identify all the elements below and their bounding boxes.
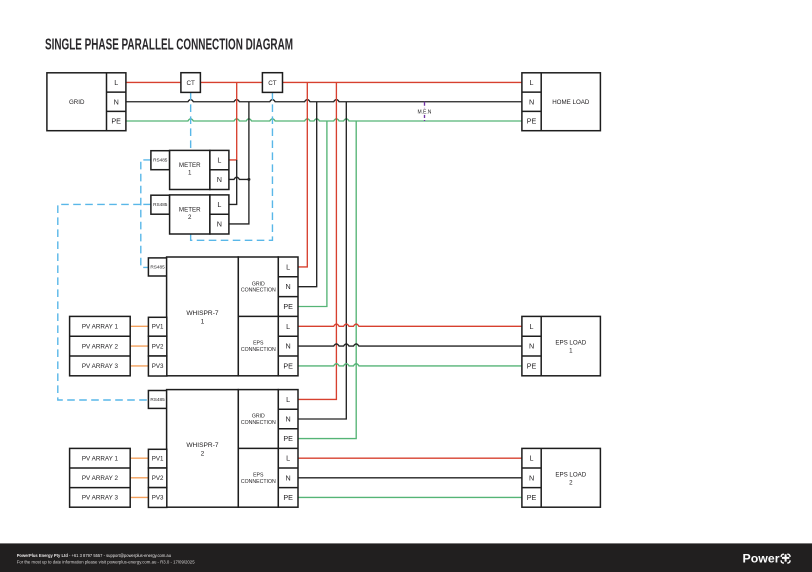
wire grid L rail [126,81,522,83]
wire meter1 N to N drop [229,177,249,179]
logo plus mark [780,553,791,564]
wire pv array 1 to whispr2 PV1 [130,457,148,459]
svg-text:Power: Power [743,552,781,565]
svg-text:N: N [114,97,119,106]
svg-text:N: N [217,219,222,228]
svg-text:PV3: PV3 [152,363,164,370]
svg-text:L: L [530,78,534,87]
wire pv array 2 to whispr2 PV2 [130,477,148,479]
svg-text:1: 1 [569,348,573,355]
inverter U2 PV terminals [148,449,166,507]
inverter U2 WHISPR-7 2 RS485 port [148,391,166,409]
svg-text:METER: METER [179,162,201,169]
load EPS LOAD 1 [522,316,601,375]
wire whispr1 grid L drop [298,82,307,266]
node M.E.N label [417,108,432,115]
svg-text:PV ARRAY 1: PV ARRAY 1 [82,324,119,331]
wire pv array 1 to whispr1 PV1 [130,325,148,327]
wire meter2 L link to meter1 L [229,160,237,205]
wire RS485 bus to whispr2 [58,204,149,400]
svg-text:L: L [286,395,290,404]
svg-text:1: 1 [188,169,192,176]
svg-text:L: L [217,155,221,164]
svg-text:METER: METER [179,206,201,213]
wire pv array 3 to whispr1 PV3 [130,365,148,367]
wire whispr1 eps PE to eps load 1 [298,364,522,366]
meter M1 terminals L N [210,150,229,189]
svg-text:M.E.N: M.E.N [417,110,431,116]
inverter U1 WHISPR-7 1 body [167,257,239,376]
wire whispr2 grid N drop [298,102,346,419]
svg-text:2: 2 [188,214,192,221]
svg-text:L: L [530,454,534,463]
svg-text:EPS LOAD: EPS LOAD [555,340,586,347]
svg-text:1: 1 [201,318,205,325]
svg-text:PE: PE [283,434,293,443]
CT 1 current transformer [181,73,201,93]
svg-text:RS485: RS485 [153,158,168,163]
svg-text:PV2: PV2 [152,475,164,482]
inverter U2 connection sections [238,390,278,508]
inverter U1 terminals L N PE / L N PE [278,257,298,376]
svg-text:2: 2 [569,479,573,486]
wire RS485 stub meter2 [141,203,151,205]
wire grid PE rail [126,119,522,121]
svg-text:2: 2 [201,450,205,457]
svg-text:N: N [217,175,222,184]
pv arrays for WHISPR-7 2 [70,448,131,507]
svg-text:L: L [286,262,290,271]
wire whispr1 eps L to eps load 1 [298,324,522,326]
wire whispr2 eps L to eps load 2 [298,457,522,459]
svg-text:N: N [529,473,534,482]
wire CT2 sense to meter2 [191,92,273,240]
svg-text:L: L [217,200,221,209]
svg-text:CONNECTION: CONNECTION [241,347,276,353]
svg-text:PE: PE [527,493,537,502]
svg-text:N: N [529,342,534,351]
svg-text:SINGLE PHASE PARALLEL CONNECTI: SINGLE PHASE PARALLEL CONNECTION DIAGRAM [45,36,293,53]
wire grid N rail [126,100,522,102]
svg-text:L: L [286,454,290,463]
svg-text:GRID: GRID [252,281,265,287]
svg-text:PV1: PV1 [152,323,164,330]
svg-text:RS485: RS485 [150,265,165,270]
pv arrays for WHISPR-7 1 [70,316,131,375]
svg-text:CONNECTION: CONNECTION [241,288,276,294]
svg-text:EPS LOAD: EPS LOAD [555,471,586,478]
svg-text:GRID: GRID [69,99,85,106]
svg-text:CT: CT [186,80,195,87]
svg-text:N: N [286,342,291,351]
CT 2 current transformer [262,73,282,93]
wire meter1 L to grid L rail [229,82,237,159]
wire whispr2 eps PE to eps load 2 [298,496,522,498]
svg-text:N: N [529,97,534,106]
inverter U2 WHISPR-7 2 body [167,390,239,508]
svg-text:PowerPlus Energy Pty Ltd - +61: PowerPlus Energy Pty Ltd - +61 3 8797 55… [17,553,172,558]
wire pv array 2 to whispr1 PV2 [130,345,148,347]
wire M.E.N link [424,102,426,121]
svg-text:CONNECTION: CONNECTION [241,479,276,485]
meter M1 METER 1 [170,150,210,189]
wire CT1 sense to meter1 [190,92,192,150]
svg-text:PV1: PV1 [152,455,164,462]
inverter U1 PV terminals [148,317,166,376]
inverter U1 connection sections [238,257,278,376]
svg-text:For the most up to date inform: For the most up to date information plea… [17,559,195,564]
wire pv array 3 to whispr2 PV3 [130,496,148,498]
wire RS485 bus meter1 to whispr1 [141,160,151,268]
svg-text:N: N [286,473,291,482]
svg-text:PV ARRAY 3: PV ARRAY 3 [82,363,119,370]
svg-text:PE: PE [283,302,293,311]
svg-text:GRID: GRID [252,414,265,420]
svg-text:WHISPR-7: WHISPR-7 [186,310,219,317]
svg-text:PV ARRAY 1: PV ARRAY 1 [82,455,119,462]
svg-text:EPS: EPS [253,472,264,478]
svg-text:EPS: EPS [253,341,264,347]
meter M2 RS485 port [151,195,170,214]
wire whispr2 grid PE drop [298,121,356,439]
wire whispr1 grid N drop [298,102,317,287]
svg-text:RS485: RS485 [150,397,165,402]
meter M2 terminals L N [210,195,229,234]
svg-text:RS485: RS485 [153,202,168,207]
svg-text:PV3: PV3 [152,495,164,502]
load HOME LOAD [522,73,601,131]
svg-text:WHISPR-7: WHISPR-7 [186,442,219,449]
svg-text:L: L [114,78,118,87]
svg-text:N: N [286,415,291,424]
svg-text:PV ARRAY 2: PV ARRAY 2 [82,475,119,482]
wire whispr2 eps N to eps load 2 [298,477,522,479]
svg-text:HOME LOAD: HOME LOAD [552,99,590,106]
meter M1 RS485 port [151,151,170,170]
svg-text:PV ARRAY 3: PV ARRAY 3 [82,495,119,502]
svg-text:PV ARRAY 2: PV ARRAY 2 [82,343,119,350]
svg-text:PV2: PV2 [152,343,164,350]
inverter U2 terminals L N PE / L N PE [278,390,298,508]
junction meter1 N [247,178,250,181]
meter M2 METER 2 [170,195,210,234]
svg-text:L: L [530,322,534,331]
svg-text:L: L [286,322,290,331]
svg-text:PE: PE [111,117,121,126]
grid source GRID [47,73,126,131]
svg-text:PE: PE [283,493,293,502]
wire whispr1 eps N to eps load 1 [298,344,522,346]
inverter U1 WHISPR-7 1 RS485 port [148,258,166,276]
svg-text:PE: PE [527,361,537,370]
wire meter2 N and N drop from grid N rail [229,102,249,224]
svg-text:N: N [286,282,291,291]
load EPS LOAD 2 [522,448,601,507]
svg-text:PE: PE [527,117,537,126]
wire whispr1 grid PE drop [298,121,327,307]
svg-text:CT: CT [268,80,277,87]
wire whispr2 grid L drop [298,82,336,399]
svg-text:CONNECTION: CONNECTION [241,420,276,426]
footer bar [0,543,812,572]
svg-text:PE: PE [283,361,293,370]
